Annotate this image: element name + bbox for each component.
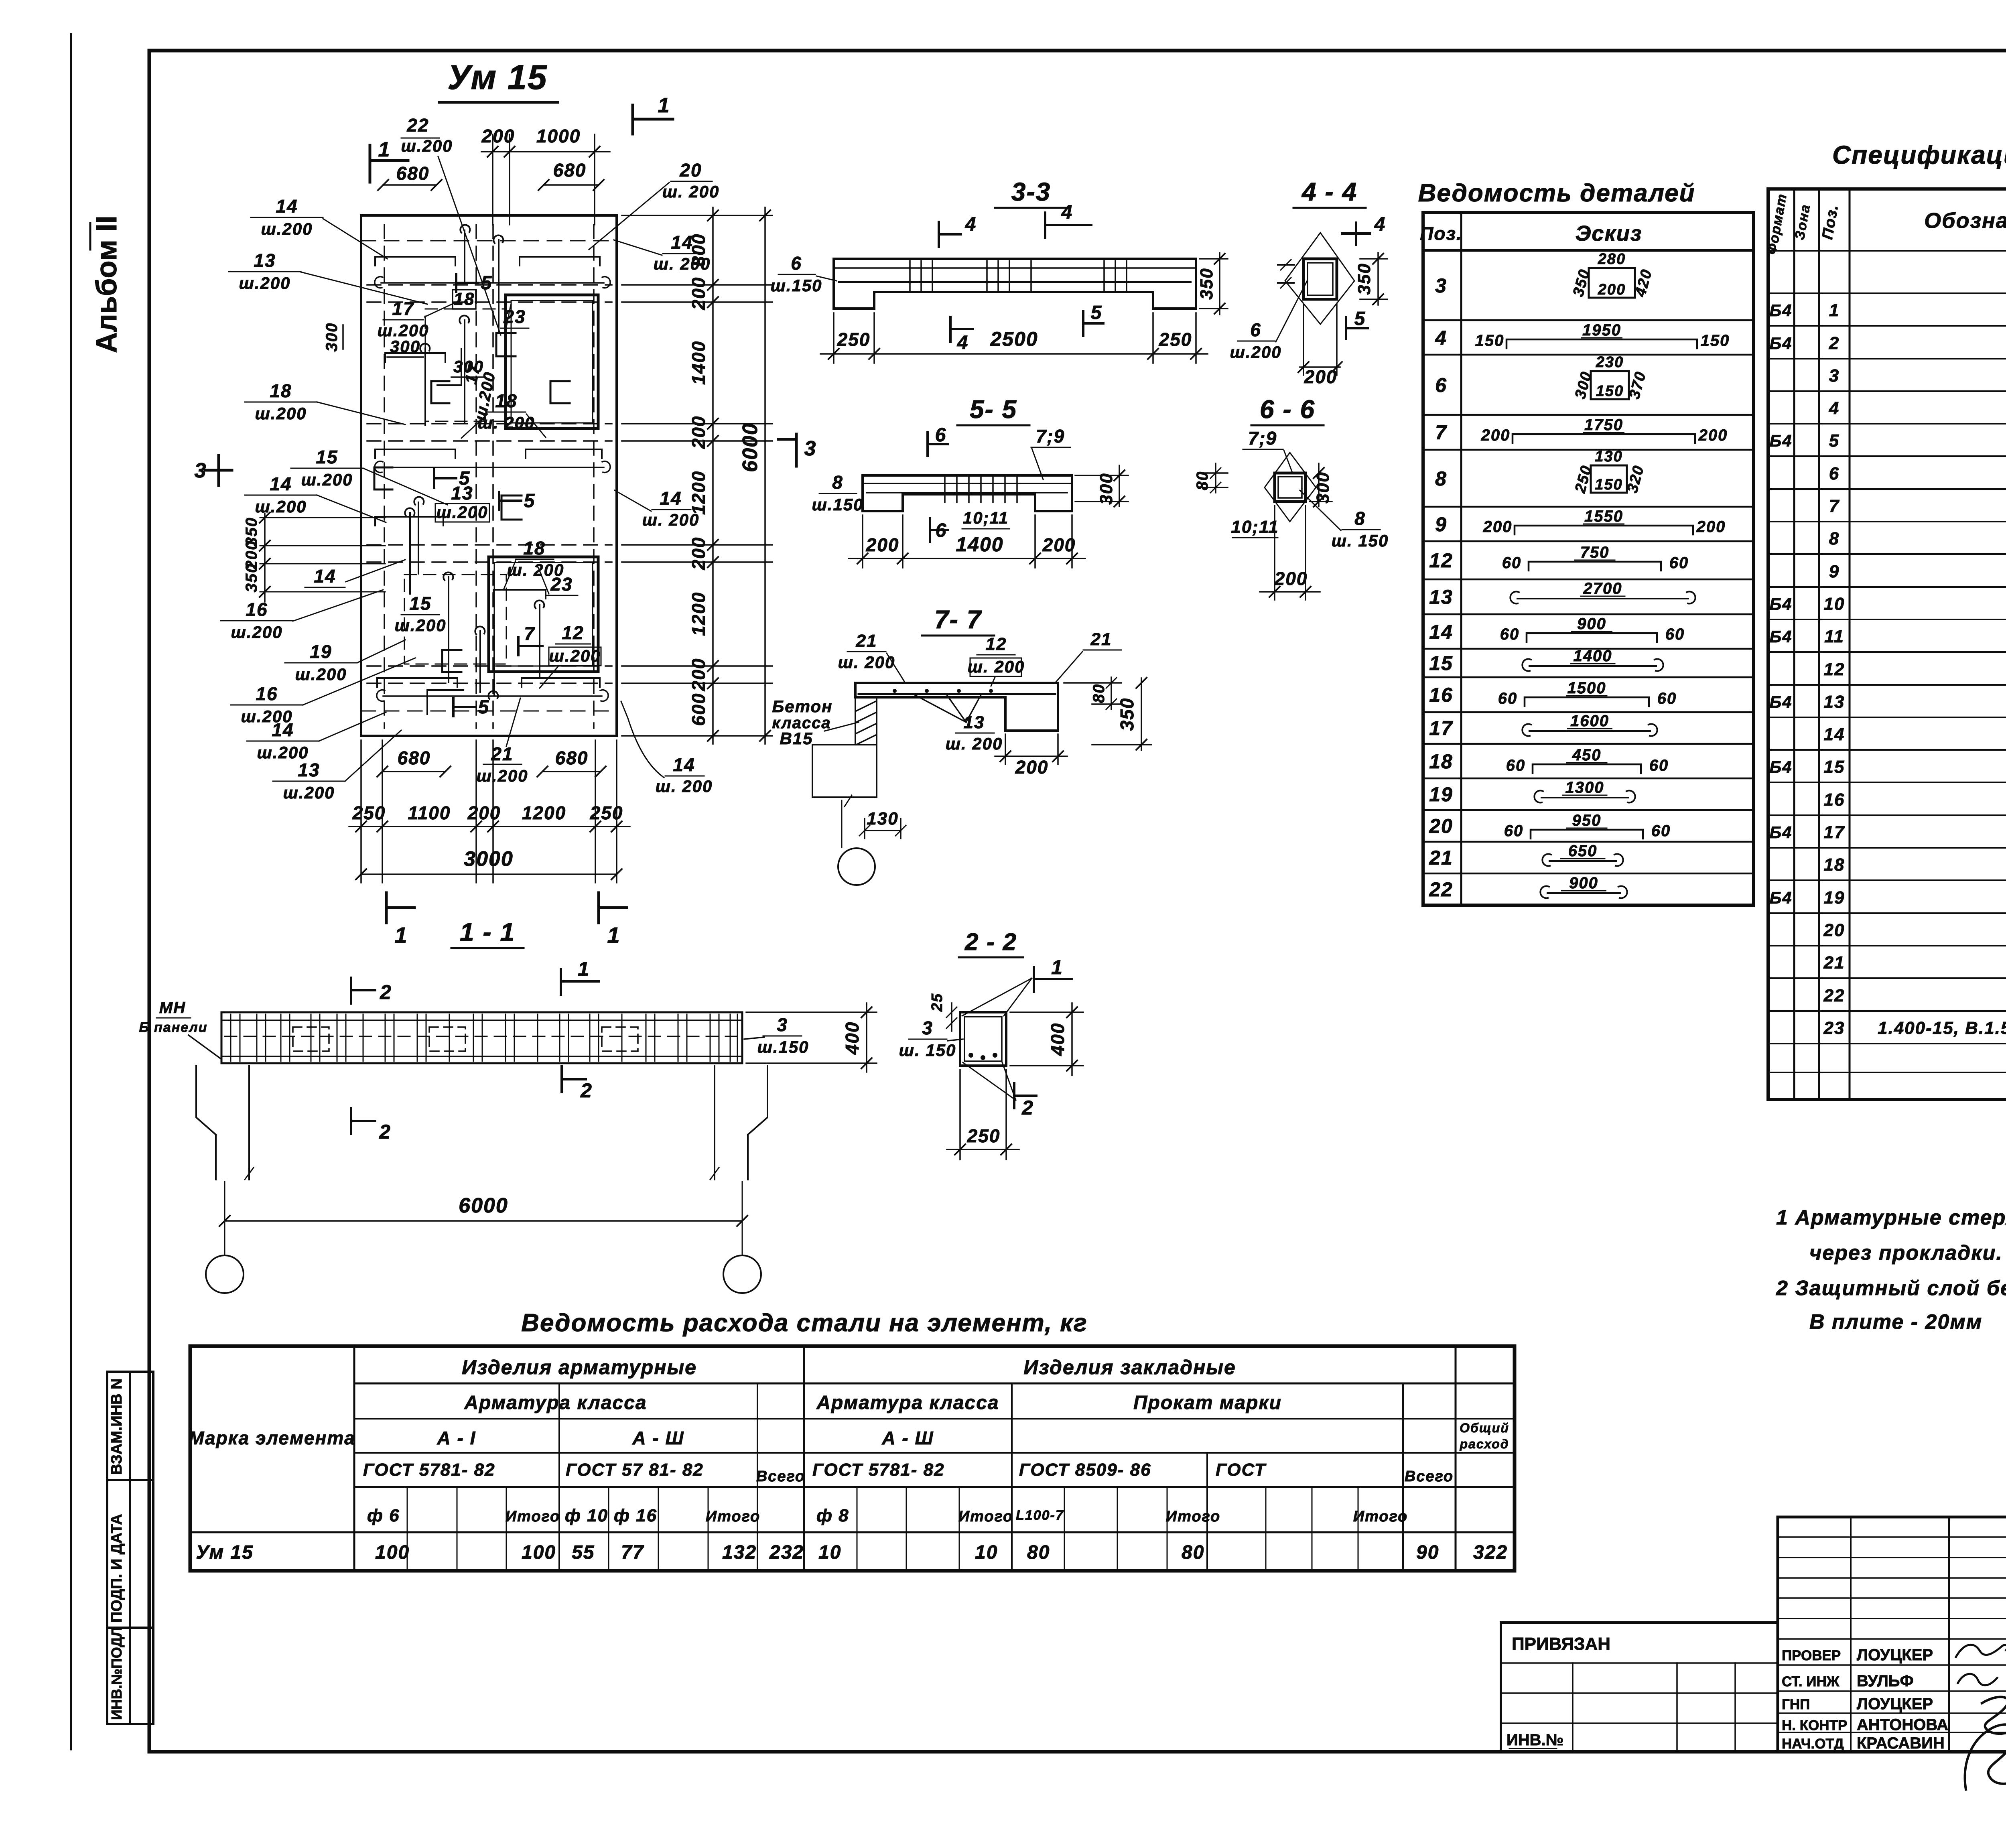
svg-text:4: 4	[1829, 398, 1840, 418]
svg-text:1200: 1200	[688, 592, 709, 636]
svg-text:5: 5	[1354, 308, 1366, 329]
svg-text:1400: 1400	[688, 341, 709, 385]
svg-text:ГОСТ 8509- 86: ГОСТ 8509- 86	[1019, 1460, 1151, 1480]
svg-text:200: 200	[1015, 757, 1049, 778]
svg-text:Всего: Всего	[756, 1468, 805, 1485]
svg-text:12: 12	[1824, 660, 1845, 679]
svg-text:ш. 200: ш. 200	[654, 254, 711, 273]
svg-text:12: 12	[562, 622, 584, 643]
svg-text:ГОСТ 5781- 82: ГОСТ 5781- 82	[363, 1460, 495, 1480]
svg-text:18: 18	[523, 538, 545, 558]
svg-text:150: 150	[1596, 383, 1624, 400]
svg-text:ш. 200: ш. 200	[662, 182, 720, 201]
svg-text:1.400-15, В.1.540-01: 1.400-15, В.1.540-01	[1878, 1018, 2006, 1038]
svg-text:1000: 1000	[536, 126, 581, 146]
svg-text:200: 200	[1304, 366, 1338, 387]
svg-text:ш.200: ш.200	[1230, 343, 1281, 361]
svg-text:322: 322	[1473, 1542, 1508, 1563]
svg-text:19: 19	[1824, 888, 1845, 908]
svg-text:21: 21	[1429, 847, 1453, 869]
svg-text:7;9: 7;9	[1248, 428, 1277, 449]
svg-text:250: 250	[967, 1125, 1001, 1146]
svg-text:ш.200: ш.200	[549, 646, 601, 665]
svg-text:22: 22	[1429, 878, 1453, 901]
svg-text:80: 80	[1090, 684, 1108, 703]
svg-text:3: 3	[1829, 366, 1840, 386]
svg-text:6: 6	[791, 253, 802, 274]
svg-text:200: 200	[1598, 281, 1626, 298]
svg-text:7;9: 7;9	[1036, 426, 1065, 447]
svg-text:ГОСТ 5781- 82: ГОСТ 5781- 82	[812, 1460, 945, 1480]
svg-text:3: 3	[195, 459, 207, 482]
svg-text:Обозначение: Обозначение	[1924, 209, 2006, 233]
svg-text:132: 132	[722, 1542, 757, 1563]
svg-text:Бетон: Бетон	[772, 697, 833, 716]
svg-text:ф 16: ф 16	[614, 1506, 657, 1525]
svg-text:200: 200	[688, 416, 709, 449]
svg-text:80: 80	[1182, 1542, 1204, 1563]
svg-text:ш.200: ш.200	[255, 404, 307, 423]
svg-text:5: 5	[478, 697, 490, 718]
svg-text:Б4: Б4	[1769, 595, 1792, 613]
svg-text:ГОСТ: ГОСТ	[1216, 1460, 1267, 1480]
svg-text:900: 900	[1577, 615, 1606, 633]
svg-text:22: 22	[406, 115, 429, 136]
svg-text:2 Защитный слой бетона в р: 2 Защитный слой бетона в ребрах - 25мм;	[1776, 1277, 2006, 1300]
svg-text:2: 2	[379, 1121, 391, 1143]
svg-text:13: 13	[1824, 692, 1845, 712]
svg-text:12: 12	[986, 634, 1007, 654]
svg-text:Б4: Б4	[1769, 301, 1792, 320]
svg-text:Б4: Б4	[1769, 627, 1792, 646]
svg-text:1: 1	[1829, 301, 1840, 320]
svg-text:20: 20	[679, 160, 702, 181]
svg-text:21: 21	[1823, 953, 1845, 973]
svg-text:21: 21	[491, 743, 513, 764]
svg-text:200: 200	[688, 277, 709, 311]
svg-text:6000: 6000	[459, 1194, 508, 1217]
svg-text:250: 250	[1159, 329, 1192, 350]
svg-text:200: 200	[688, 658, 709, 692]
svg-text:ИНВ.№: ИНВ.№	[1507, 1731, 1563, 1749]
svg-text:1200: 1200	[522, 802, 566, 823]
svg-text:23: 23	[1823, 1018, 1845, 1038]
svg-text:3: 3	[922, 1017, 933, 1038]
svg-text:10;11: 10;11	[963, 508, 1009, 527]
svg-text:1100: 1100	[408, 802, 451, 823]
svg-text:14: 14	[1824, 725, 1845, 744]
svg-text:77: 77	[621, 1542, 644, 1563]
svg-text:Ум 15: Ум 15	[447, 58, 547, 97]
svg-text:19: 19	[310, 641, 332, 662]
svg-text:14: 14	[272, 719, 294, 740]
svg-text:60: 60	[1669, 554, 1689, 572]
svg-text:1600: 1600	[1570, 712, 1609, 730]
svg-text:2 - 2: 2 - 2	[964, 928, 1017, 955]
svg-text:ПРОВЕР: ПРОВЕР	[1782, 1648, 1841, 1663]
svg-text:ш. 150: ш. 150	[1332, 531, 1389, 550]
svg-text:13: 13	[1429, 586, 1453, 608]
svg-text:L100-7: L100-7	[1016, 1508, 1064, 1523]
svg-text:21: 21	[1090, 630, 1112, 649]
svg-text:ш. 200: ш. 200	[968, 657, 1025, 676]
svg-text:150: 150	[1595, 476, 1622, 493]
svg-text:В плите - 20мм: В плите - 20мм	[1809, 1310, 1982, 1334]
svg-text:16: 16	[256, 683, 278, 704]
svg-text:А - Ш: А - Ш	[881, 1428, 934, 1448]
svg-text:680: 680	[398, 747, 431, 768]
svg-text:250: 250	[352, 802, 386, 823]
svg-text:Изделия закладные: Изделия закладные	[1023, 1356, 1236, 1379]
svg-text:15: 15	[1824, 757, 1845, 777]
svg-text:5- 5: 5- 5	[970, 395, 1017, 424]
svg-text:350: 350	[243, 563, 260, 593]
svg-text:1 - 1: 1 - 1	[460, 918, 515, 946]
svg-text:Арматура класса: Арматура класса	[464, 1392, 647, 1413]
svg-text:ВУЛЬФ: ВУЛЬФ	[1857, 1672, 1914, 1690]
svg-text:60: 60	[1649, 757, 1669, 774]
svg-text:200: 200	[1698, 426, 1728, 444]
svg-text:90: 90	[1416, 1542, 1439, 1563]
svg-text:ш.200: ш.200	[476, 766, 528, 785]
svg-text:Б4: Б4	[1769, 334, 1792, 353]
svg-text:350: 350	[1117, 698, 1137, 731]
svg-text:13: 13	[298, 760, 320, 780]
svg-text:60: 60	[1657, 690, 1677, 707]
svg-text:8: 8	[1354, 508, 1366, 529]
svg-text:750: 750	[1580, 544, 1610, 561]
svg-text:ш.200: ш.200	[394, 616, 446, 635]
svg-text:680: 680	[396, 163, 430, 184]
svg-text:15: 15	[316, 447, 338, 467]
svg-text:14: 14	[673, 754, 695, 775]
svg-text:1500: 1500	[1567, 679, 1606, 697]
svg-text:ш. 200: ш. 200	[838, 653, 895, 672]
svg-text:18: 18	[1429, 750, 1453, 773]
svg-text:ф 6: ф 6	[367, 1506, 400, 1525]
svg-text:Н. КОНТР: Н. КОНТР	[1782, 1718, 1847, 1733]
svg-text:100: 100	[522, 1542, 556, 1563]
svg-text:232: 232	[769, 1542, 804, 1563]
svg-text:10;11: 10;11	[1231, 517, 1279, 537]
svg-text:17: 17	[392, 298, 414, 319]
svg-text:130: 130	[1595, 448, 1622, 465]
svg-text:6: 6	[935, 424, 947, 446]
svg-text:400: 400	[842, 1021, 863, 1055]
svg-text:Б4: Б4	[1769, 431, 1792, 450]
svg-text:НАЧ.ОТД: НАЧ.ОТД	[1782, 1736, 1844, 1752]
svg-text:400: 400	[1047, 1023, 1068, 1056]
svg-text:В15: В15	[780, 729, 813, 748]
svg-text:300: 300	[323, 323, 341, 352]
svg-text:1: 1	[578, 958, 590, 980]
svg-text:3: 3	[804, 437, 817, 460]
svg-text:ш. 200: ш. 200	[642, 510, 700, 529]
svg-text:250: 250	[837, 329, 871, 350]
svg-text:55: 55	[572, 1542, 595, 1563]
svg-text:Итого: Итого	[1353, 1508, 1408, 1525]
svg-text:300: 300	[1096, 473, 1116, 504]
svg-text:ш.200: ш.200	[257, 743, 309, 762]
svg-text:350: 350	[1197, 268, 1216, 299]
svg-text:3: 3	[777, 1014, 788, 1035]
svg-text:ГОСТ 57 81- 82: ГОСТ 57 81- 82	[566, 1460, 704, 1480]
svg-text:900: 900	[1569, 874, 1598, 892]
svg-text:1 Арматурные стержни поз.2: 1 Арматурные стержни поз.2 приварить к п…	[1776, 1206, 2006, 1229]
svg-text:1: 1	[658, 94, 670, 117]
svg-text:ш. 200: ш. 200	[946, 734, 1003, 753]
svg-text:680: 680	[555, 747, 589, 768]
svg-text:ПРИВЯЗАН: ПРИВЯЗАН	[1512, 1634, 1610, 1654]
svg-text:23: 23	[550, 574, 573, 595]
svg-text:2: 2	[1021, 1097, 1034, 1119]
svg-text:7: 7	[1829, 496, 1840, 516]
svg-text:1: 1	[378, 138, 391, 161]
svg-text:ш.200: ш.200	[401, 136, 453, 155]
svg-text:60: 60	[1504, 822, 1524, 840]
svg-text:20: 20	[1823, 920, 1845, 940]
svg-text:1750: 1750	[1584, 416, 1623, 434]
svg-text:280: 280	[1598, 251, 1626, 268]
svg-text:ПОДП. И ДАТА: ПОДП. И ДАТА	[108, 1514, 125, 1623]
svg-text:АНТОНОВА: АНТОНОВА	[1857, 1716, 1948, 1734]
svg-text:Б панели: Б панели	[139, 1020, 208, 1035]
svg-text:5: 5	[1091, 302, 1102, 323]
svg-text:ш.200: ш.200	[261, 219, 313, 238]
svg-text:200: 200	[1042, 534, 1076, 555]
svg-text:ш.200: ш.200	[239, 274, 290, 292]
svg-text:ш. 200: ш. 200	[656, 777, 713, 796]
svg-text:1400: 1400	[956, 533, 1003, 556]
svg-text:Б4: Б4	[1769, 692, 1792, 711]
svg-text:7- 7: 7- 7	[934, 605, 983, 634]
svg-text:Ведомость расхода стали на: Ведомость расхода стали на элемент, кг	[521, 1309, 1088, 1337]
svg-text:16: 16	[1824, 790, 1845, 810]
svg-text:ГНП: ГНП	[1782, 1697, 1810, 1712]
svg-text:Итого: Итого	[706, 1508, 760, 1525]
svg-text:МН: МН	[159, 999, 186, 1017]
svg-text:СТ. ИНЖ: СТ. ИНЖ	[1782, 1674, 1840, 1690]
svg-text:60: 60	[1500, 625, 1520, 643]
svg-text:150: 150	[1475, 332, 1504, 349]
svg-text:ф 8: ф 8	[816, 1506, 849, 1525]
svg-text:5: 5	[1829, 431, 1840, 451]
svg-text:8: 8	[1829, 529, 1840, 548]
svg-text:6: 6	[936, 520, 947, 541]
svg-text:450: 450	[1572, 746, 1602, 764]
svg-text:1: 1	[394, 922, 408, 948]
svg-text:80: 80	[1194, 471, 1211, 491]
svg-text:14: 14	[660, 488, 682, 509]
svg-text:А - Ш: А - Ш	[632, 1428, 684, 1448]
svg-text:950: 950	[1572, 812, 1602, 829]
svg-text:5: 5	[459, 468, 471, 489]
svg-text:200: 200	[1696, 518, 1726, 536]
svg-text:1950: 1950	[1582, 321, 1621, 339]
svg-text:Общий: Общий	[1460, 1421, 1509, 1435]
svg-text:6: 6	[1829, 464, 1840, 483]
svg-text:2: 2	[580, 1079, 593, 1102]
svg-text:650: 650	[1568, 842, 1598, 860]
svg-text:4 - 4: 4 - 4	[1301, 177, 1357, 206]
svg-text:Спецификация к монолитному уча: Спецификация к монолитному участку Ум 15	[1832, 140, 2006, 169]
svg-text:ИНВ.№ПОДЛ: ИНВ.№ПОДЛ	[108, 1627, 125, 1720]
svg-text:150: 150	[1701, 332, 1730, 349]
svg-text:300: 300	[1313, 471, 1333, 503]
svg-text:5: 5	[481, 272, 493, 294]
svg-text:20: 20	[1429, 815, 1453, 837]
svg-text:60: 60	[1498, 690, 1518, 707]
svg-text:расход: расход	[1459, 1437, 1509, 1451]
svg-text:8: 8	[832, 472, 843, 493]
svg-text:60: 60	[1665, 625, 1685, 643]
svg-text:300: 300	[390, 337, 420, 356]
svg-text:10: 10	[975, 1542, 998, 1563]
svg-text:21: 21	[856, 631, 877, 651]
svg-text:А - I: А - I	[437, 1428, 476, 1448]
svg-text:60: 60	[1502, 554, 1522, 572]
svg-text:4: 4	[1061, 202, 1073, 223]
svg-text:12: 12	[1429, 549, 1453, 572]
svg-text:9: 9	[1435, 513, 1447, 536]
svg-text:10: 10	[818, 1542, 841, 1563]
svg-text:Б4: Б4	[1769, 888, 1792, 907]
svg-text:2: 2	[1829, 333, 1840, 353]
svg-text:Изделия арматурные: Изделия арматурные	[462, 1356, 697, 1379]
svg-text:230: 230	[1596, 354, 1624, 371]
svg-text:200: 200	[1481, 426, 1511, 444]
svg-text:1300: 1300	[1565, 779, 1604, 796]
svg-text:15: 15	[409, 593, 431, 614]
svg-text:14: 14	[314, 566, 336, 587]
svg-text:7: 7	[1435, 421, 1447, 444]
svg-text:600: 600	[688, 693, 709, 726]
svg-text:через прокладки.: через прокладки.	[1809, 1241, 2003, 1265]
svg-text:3-3: 3-3	[1011, 177, 1051, 206]
svg-text:ЛОУЦКЕР: ЛОУЦКЕР	[1857, 1646, 1933, 1664]
svg-text:Эскиз: Эскиз	[1576, 221, 1643, 246]
svg-text:Б4: Б4	[1769, 757, 1792, 776]
svg-text:ш. 200: ш. 200	[478, 413, 535, 432]
svg-text:200: 200	[481, 126, 515, 146]
svg-text:Альбом II: Альбом II	[91, 215, 123, 353]
svg-text:9: 9	[1829, 562, 1840, 581]
svg-text:ш.200: ш.200	[231, 623, 282, 642]
svg-text:17: 17	[1429, 717, 1453, 739]
svg-text:6: 6	[1250, 319, 1261, 340]
svg-text:22: 22	[1823, 986, 1845, 1005]
svg-text:Итого: Итого	[958, 1508, 1013, 1525]
svg-text:4: 4	[965, 214, 977, 235]
svg-text:13: 13	[254, 250, 276, 271]
svg-text:16: 16	[1429, 684, 1453, 706]
svg-text:19: 19	[1429, 783, 1453, 806]
svg-text:200: 200	[1483, 518, 1513, 536]
svg-text:350: 350	[1354, 263, 1374, 294]
svg-text:17: 17	[1824, 822, 1845, 842]
svg-text:2700: 2700	[1583, 580, 1622, 597]
svg-text:2500: 2500	[990, 328, 1038, 350]
svg-text:4: 4	[1374, 214, 1386, 235]
svg-text:18: 18	[1824, 855, 1845, 875]
svg-text:КРАСАВИН: КРАСАВИН	[1857, 1734, 1945, 1752]
svg-text:Итого: Итого	[506, 1508, 560, 1525]
svg-text:ш.200: ш.200	[295, 665, 347, 684]
svg-text:ш.200: ш.200	[301, 470, 353, 489]
svg-text:Арматура класса: Арматура класса	[816, 1392, 999, 1413]
svg-text:6 - 6: 6 - 6	[1260, 395, 1315, 424]
svg-text:14: 14	[1429, 621, 1453, 643]
svg-text:Ум 15: Ум 15	[196, 1542, 254, 1563]
svg-text:4: 4	[1435, 327, 1447, 349]
svg-text:25: 25	[929, 993, 946, 1012]
svg-text:130: 130	[867, 809, 898, 829]
svg-text:60: 60	[1506, 757, 1526, 774]
svg-text:Всего: Всего	[1405, 1468, 1454, 1485]
svg-text:ф 10: ф 10	[565, 1506, 608, 1525]
svg-text:Поз.: Поз.	[1420, 223, 1462, 244]
svg-text:Марка элемента: Марка элемента	[189, 1428, 355, 1448]
svg-text:200: 200	[467, 802, 501, 823]
svg-text:15: 15	[1429, 652, 1453, 674]
svg-text:3: 3	[1435, 274, 1447, 297]
svg-text:ЛОУЦКЕР: ЛОУЦКЕР	[1857, 1695, 1933, 1713]
svg-text:ВЗАМ.ИНВ N: ВЗАМ.ИНВ N	[108, 1378, 125, 1475]
svg-text:250: 250	[590, 802, 623, 823]
svg-text:60: 60	[1651, 822, 1671, 840]
svg-text:680: 680	[553, 160, 587, 181]
svg-text:8: 8	[1435, 467, 1447, 490]
svg-text:1: 1	[1051, 956, 1063, 979]
svg-text:5: 5	[524, 490, 536, 512]
svg-text:6000: 6000	[739, 422, 762, 472]
svg-text:ш.150: ш.150	[770, 276, 822, 295]
svg-text:ш. 150: ш. 150	[899, 1041, 956, 1060]
svg-text:ш.200: ш.200	[283, 783, 335, 802]
svg-text:14: 14	[671, 232, 693, 253]
svg-text:Б4: Б4	[1769, 823, 1792, 842]
svg-text:ш.200: ш.200	[255, 497, 307, 516]
svg-text:18: 18	[495, 390, 517, 411]
svg-text:2: 2	[380, 981, 392, 1003]
svg-text:14: 14	[276, 196, 298, 217]
svg-text:1550: 1550	[1584, 508, 1623, 525]
svg-text:Итого: Итого	[1166, 1508, 1220, 1525]
svg-text:100: 100	[375, 1542, 410, 1563]
svg-text:6: 6	[1435, 374, 1447, 396]
svg-text:1200: 1200	[688, 471, 709, 515]
svg-text:4: 4	[957, 332, 969, 353]
svg-text:14: 14	[270, 473, 292, 494]
svg-text:1: 1	[607, 922, 620, 948]
svg-text:200: 200	[688, 537, 709, 571]
svg-text:11: 11	[1824, 627, 1844, 646]
svg-text:7: 7	[524, 623, 535, 644]
svg-text:18: 18	[270, 380, 292, 401]
svg-text:1400: 1400	[1574, 647, 1612, 665]
svg-text:Прокат марки: Прокат марки	[1133, 1392, 1282, 1413]
svg-text:3000: 3000	[464, 847, 514, 871]
svg-text:10: 10	[1824, 594, 1845, 614]
svg-text:80: 80	[1027, 1542, 1050, 1563]
svg-text:ш.150: ш.150	[757, 1038, 809, 1056]
svg-text:ш.150: ш.150	[812, 495, 863, 514]
svg-text:Ведомость деталей: Ведомость деталей	[1418, 179, 1695, 207]
svg-text:200: 200	[1274, 568, 1308, 589]
svg-text:200: 200	[866, 534, 899, 555]
